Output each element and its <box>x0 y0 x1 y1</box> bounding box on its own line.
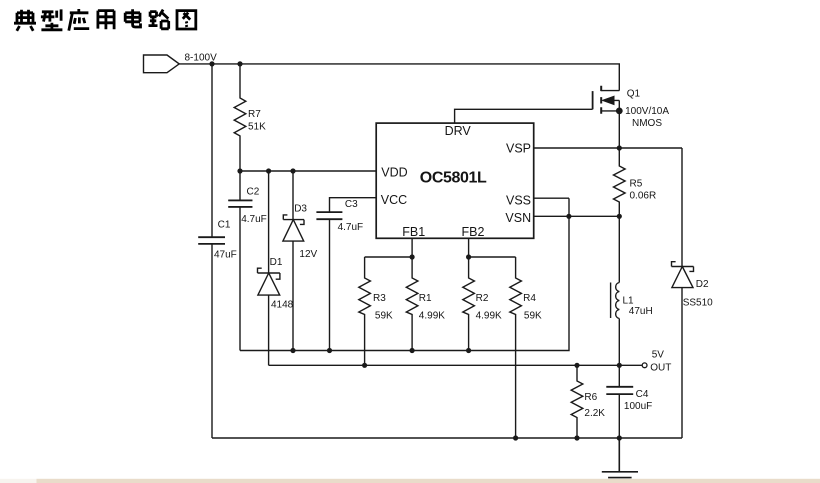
wire FB2 node row <box>469 238 516 257</box>
transistor Q1 NMOS <box>592 91 594 109</box>
glyph 图 <box>177 11 196 29</box>
svg-text:FB1: FB1 <box>402 225 425 239</box>
resistor R3 <box>359 257 371 365</box>
svg-text:R3: R3 <box>373 293 386 304</box>
svg-text:VSN: VSN <box>505 211 531 225</box>
node input/C1 <box>209 61 214 66</box>
svg-text:4.7uF: 4.7uF <box>338 222 364 233</box>
glyph 型 <box>41 9 63 29</box>
node busA/D3 <box>290 348 295 353</box>
node bottom/R6 <box>574 435 579 440</box>
node VDD/D1 <box>266 168 271 173</box>
svg-text:R7: R7 <box>248 109 261 120</box>
node busA/R1 <box>410 348 415 353</box>
svg-text:R4: R4 <box>523 293 536 304</box>
svg-text:4.7uF: 4.7uF <box>241 214 267 225</box>
svg-text:59K: 59K <box>375 311 393 322</box>
svg-text:L1: L1 <box>623 295 635 306</box>
svg-text:D2: D2 <box>696 279 709 290</box>
node Q1 source <box>616 108 623 115</box>
svg-text:0.06R: 0.06R <box>630 190 657 201</box>
diode D3 12V <box>292 171 294 220</box>
svg-text:VSP: VSP <box>506 142 531 156</box>
node VDD/R7 <box>237 168 242 173</box>
node FB2 <box>466 254 471 259</box>
node VDD/D3 <box>290 168 295 173</box>
resistor R1 <box>406 257 418 351</box>
IC U1 OC5801L box <box>376 123 534 238</box>
node busB/R3 <box>362 363 367 368</box>
svg-text:R6: R6 <box>584 392 597 403</box>
svg-text:NMOS: NMOS <box>632 118 662 129</box>
wire C1 to bottom bus <box>211 244 213 438</box>
svg-text:100uF: 100uF <box>624 401 652 412</box>
svg-text:100V/10A: 100V/10A <box>625 106 669 117</box>
node input/R7 <box>237 61 242 66</box>
wire VSP row <box>534 147 682 149</box>
svg-text:R1: R1 <box>419 293 432 304</box>
circuit wires <box>144 55 694 478</box>
wire bus B 5V OUT row <box>269 364 643 366</box>
svg-text:4.99K: 4.99K <box>419 311 445 322</box>
svg-text:OC5801L: OC5801L <box>420 170 487 187</box>
wire C1 branch down <box>211 64 213 237</box>
svg-text:47uF: 47uF <box>214 249 237 260</box>
capacitor C4 <box>618 365 620 387</box>
wire top rail <box>179 64 619 91</box>
svg-text:D3: D3 <box>294 204 307 215</box>
node busB/R6 <box>574 363 579 368</box>
glyph 用 <box>98 11 114 30</box>
wire VSS net <box>534 197 569 199</box>
svg-text:R2: R2 <box>476 293 489 304</box>
resistor R7 <box>234 64 246 171</box>
wire Q1 source to VSP row <box>618 111 620 148</box>
svg-text:12V: 12V <box>299 249 317 260</box>
node bottom/R4 <box>513 435 518 440</box>
resistor R4 <box>510 257 522 438</box>
svg-text:59K: 59K <box>524 311 542 322</box>
svg-text:VSS: VSS <box>506 194 531 208</box>
svg-text:2.2K: 2.2K <box>584 408 605 419</box>
node VSN/R5 <box>617 214 622 219</box>
svg-text:R5: R5 <box>630 178 643 189</box>
svg-text:C1: C1 <box>218 219 231 230</box>
node VSS/VSN <box>566 214 571 219</box>
svg-text:51K: 51K <box>248 122 266 133</box>
node VSP/R5 <box>617 145 622 150</box>
wire FB1 node row <box>365 238 413 257</box>
diode D2 SS510 <box>672 262 694 272</box>
svg-text:OUT: OUT <box>650 363 671 374</box>
svg-text:Q1: Q1 <box>627 89 641 100</box>
capacitor C2 <box>228 171 252 351</box>
svg-text:VCC: VCC <box>381 193 407 207</box>
svg-text:C4: C4 <box>636 389 649 400</box>
resistor R5 <box>614 148 626 216</box>
glyph 应 <box>69 9 89 31</box>
svg-text:8-100V: 8-100V <box>185 53 218 64</box>
wire VDD row <box>240 170 376 172</box>
wire bus A (AGND) <box>240 198 569 350</box>
svg-text:C2: C2 <box>247 186 260 197</box>
svg-text:47uH: 47uH <box>629 306 653 317</box>
glyph 电 <box>125 9 140 27</box>
node busB/C4 <box>617 363 622 368</box>
diode D1 4148 <box>268 171 270 273</box>
ground <box>602 438 638 478</box>
svg-text:VDD: VDD <box>381 165 407 179</box>
wire bottom bus <box>212 437 682 439</box>
wire D2 branch <box>681 148 683 267</box>
capacitor C1 <box>198 237 225 244</box>
svg-text:SS510: SS510 <box>683 298 713 309</box>
node busA/R2 <box>466 348 471 353</box>
resistor R6 <box>571 365 583 438</box>
inductor L1 <box>618 216 620 282</box>
svg-text:4.99K: 4.99K <box>476 311 502 322</box>
glyph 典 <box>14 10 36 31</box>
input connector 8-100V <box>144 55 180 73</box>
svg-text:4148: 4148 <box>271 300 294 311</box>
svg-text:D1: D1 <box>270 257 283 268</box>
svg-text:FB2: FB2 <box>462 225 485 239</box>
terminal OUT circle <box>642 363 647 368</box>
svg-text:DRV: DRV <box>445 124 472 138</box>
glyph 路 <box>149 10 169 29</box>
node busA/C3 <box>327 348 332 353</box>
wire DRV net <box>455 109 593 123</box>
footer strip <box>0 479 37 483</box>
node bottom/gnd <box>617 435 622 440</box>
wire VSN row <box>534 215 620 217</box>
wire VCC row + capacitor C3 <box>330 198 377 212</box>
svg-text:C3: C3 <box>345 199 358 210</box>
svg-text:5V: 5V <box>652 350 665 361</box>
title 典型应用电路图 (drawn glyph strokes) <box>14 9 196 31</box>
resistor R2 <box>463 257 475 351</box>
node FB1 <box>410 254 415 259</box>
